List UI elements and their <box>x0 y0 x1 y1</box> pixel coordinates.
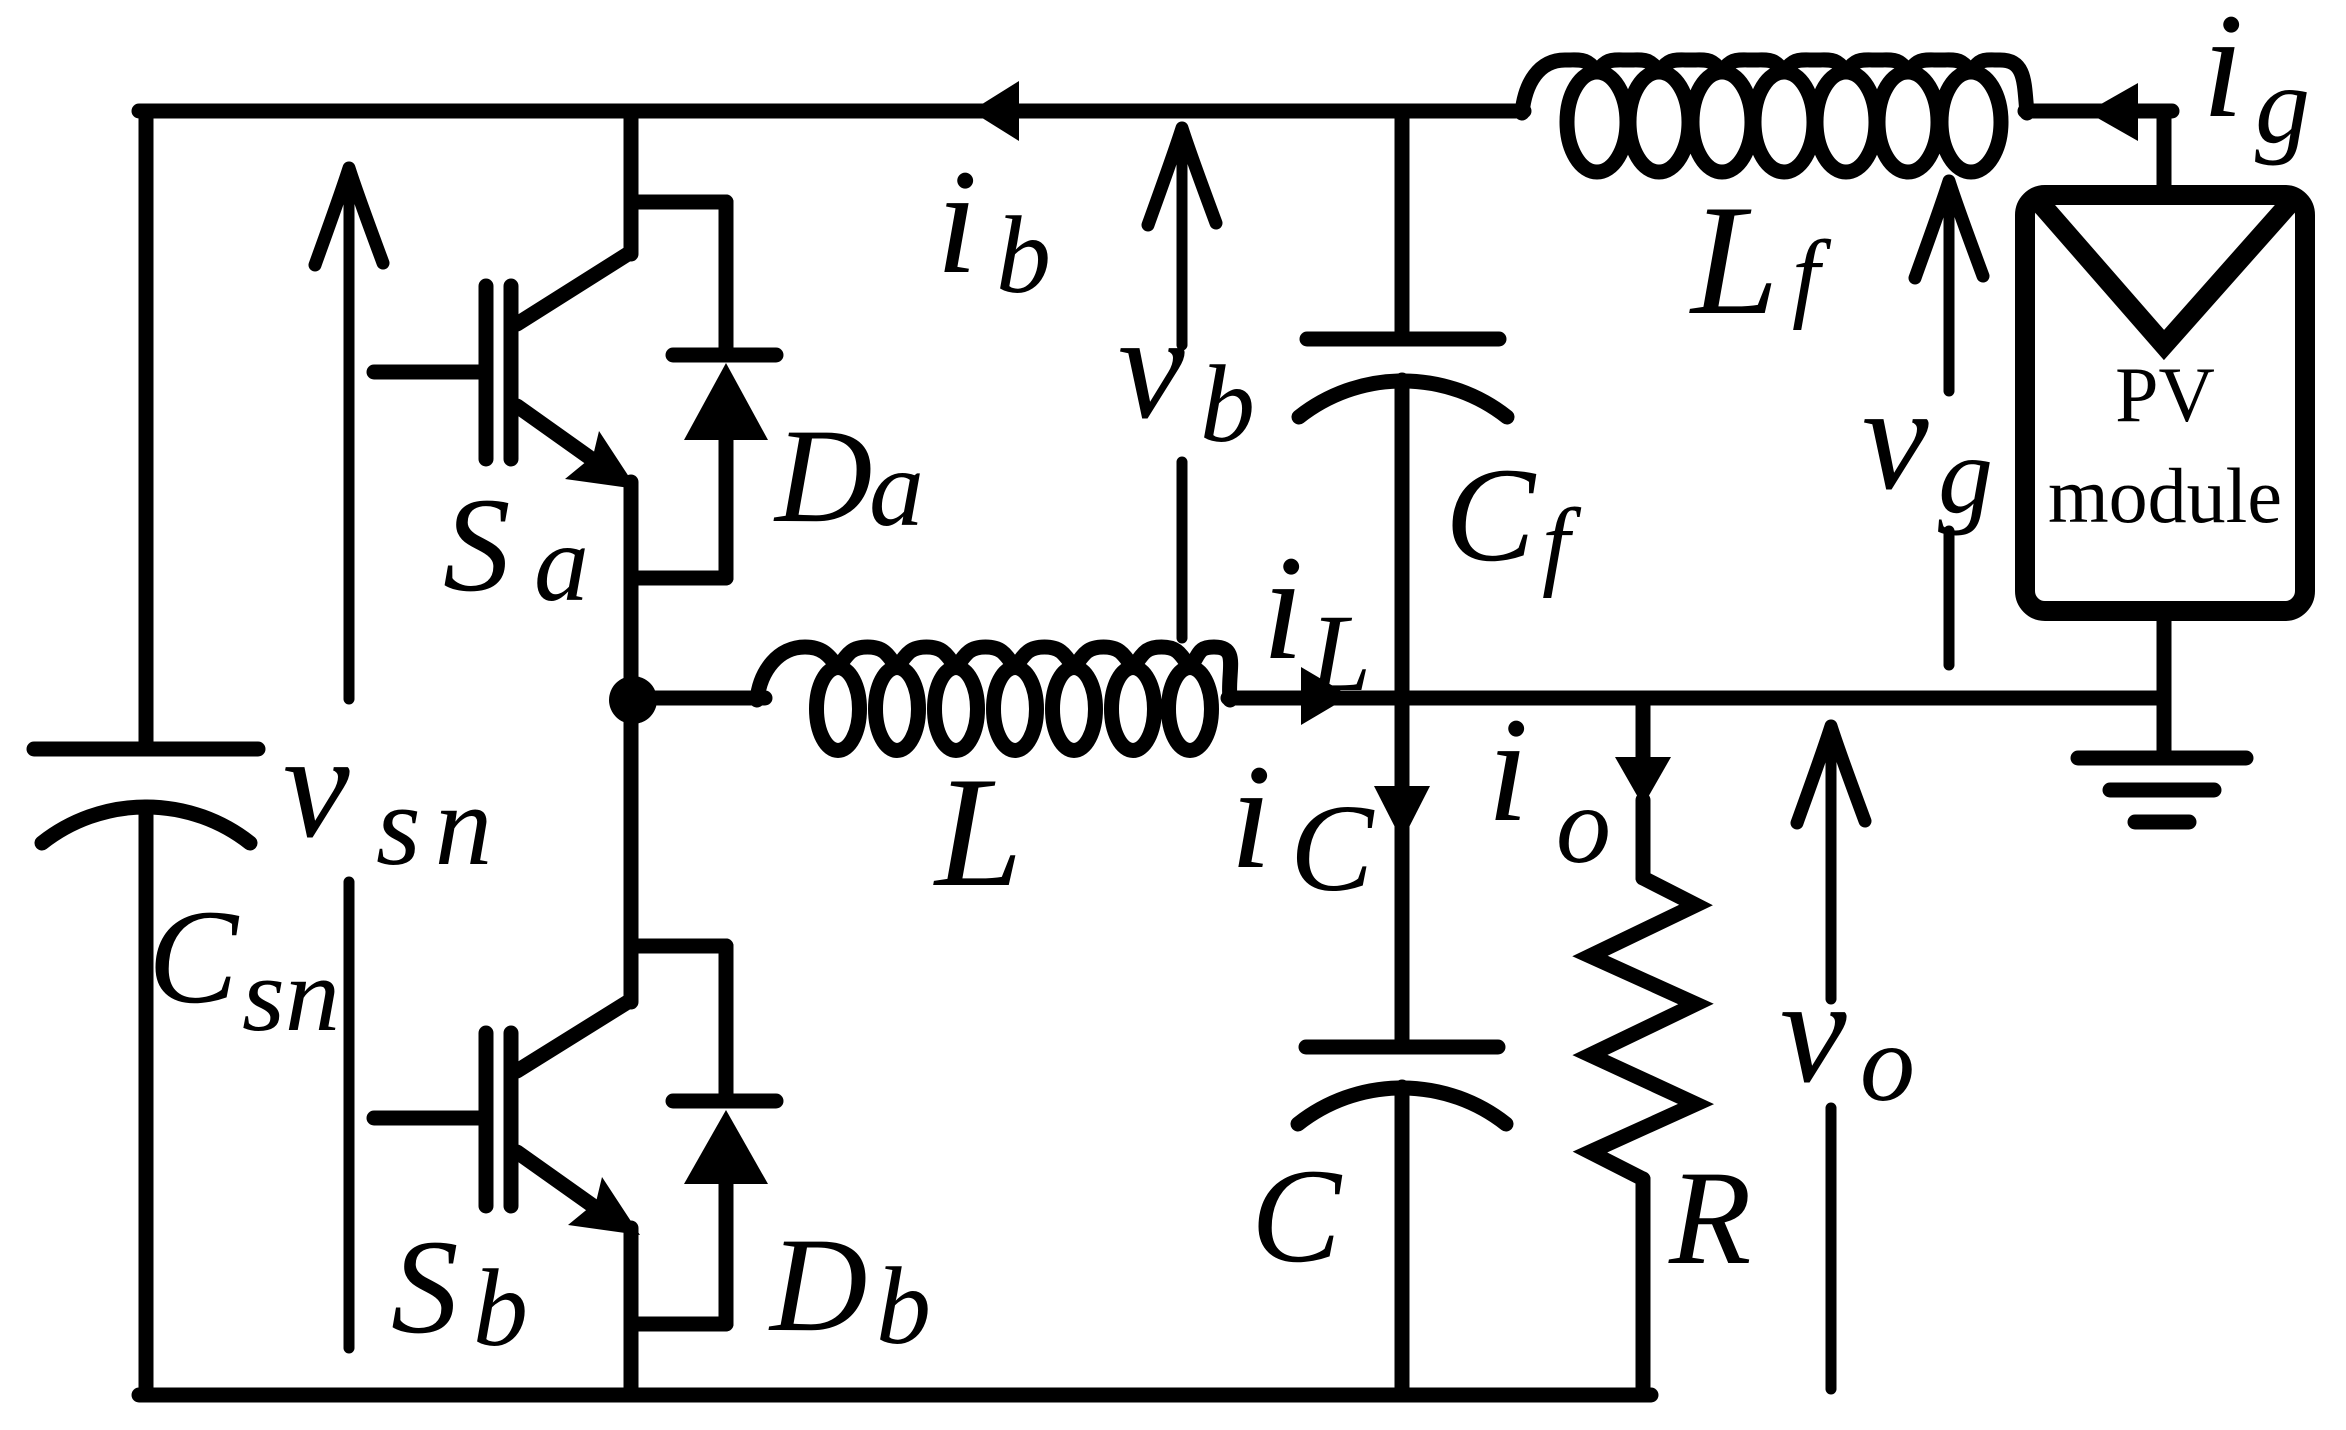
wire top rail (left of Lf) <box>139 104 1524 119</box>
capacitor Cf top plate <box>1307 332 1499 347</box>
capacitor C top plate <box>1306 1040 1498 1055</box>
wire left rail (below Csn) <box>139 807 154 1395</box>
svg-text:module: module <box>2048 452 2282 539</box>
transistor Sa emitter arrowhead <box>565 431 637 489</box>
transistor Sb collector lead <box>624 700 639 1002</box>
svg-text:S: S <box>391 1213 459 1362</box>
capacitor C curved plate <box>1298 1088 1506 1124</box>
capacitor Cf bottom lead <box>1395 380 1410 698</box>
voltage arrow vg shaft (upper) <box>1944 181 1955 391</box>
voltage arrow vb shaft (lower) <box>1177 462 1188 638</box>
svg-text:L: L <box>933 745 1023 920</box>
diode Da cathode bar <box>673 348 776 363</box>
capacitor Cf curved plate <box>1299 381 1507 417</box>
svg-text:sn: sn <box>376 762 506 889</box>
voltage arrow vg shaft (lower) <box>1944 531 1955 665</box>
capacitor C top lead <box>1395 698 1410 1040</box>
svg-text:v: v <box>1862 355 1929 521</box>
svg-text:sn: sn <box>242 936 340 1053</box>
wire top-right corner down to PV module <box>2157 111 2172 196</box>
transistor Sb emitter lead <box>624 1228 639 1395</box>
svg-text:C: C <box>1251 1142 1343 1291</box>
transistor Sb gate bar <box>479 1033 494 1206</box>
diode Db cathode lead <box>719 946 734 1094</box>
svg-text:v: v <box>1780 948 1847 1114</box>
svg-text:C: C <box>1445 441 1537 590</box>
resistor R top lead <box>1636 698 1651 760</box>
svg-text:C: C <box>1290 780 1375 918</box>
transistor Sb gate lead <box>374 1111 479 1126</box>
svg-text:b: b <box>876 1245 931 1367</box>
voltage arrow vo shaft (lower) <box>1826 1108 1837 1389</box>
svg-text:R: R <box>1668 1144 1751 1293</box>
wire capacitor branch to PV ground net <box>1402 691 2164 706</box>
ground lead <box>2157 698 2172 752</box>
PV module chevron <box>2040 203 2290 345</box>
transistor Sb body bar <box>504 1033 519 1206</box>
transistor Sb emitter arrowhead <box>568 1177 640 1235</box>
capacitor Csn top plate <box>34 742 258 757</box>
svg-text:D: D <box>773 402 873 551</box>
svg-text:v: v <box>283 703 350 869</box>
voltage arrow vo head <box>1797 726 1865 823</box>
svg-text:PV: PV <box>2115 351 2215 438</box>
voltage arrow vsn shaft (lower) <box>344 882 355 1348</box>
voltage arrow vg head <box>1915 181 1983 278</box>
node midpoint junction dot <box>609 676 657 724</box>
voltage arrow vsn head <box>315 168 383 265</box>
svg-text:a: a <box>869 427 924 549</box>
current arrow iC <box>1374 786 1430 841</box>
svg-text:b: b <box>473 1247 528 1369</box>
transistor Sa body bar <box>504 286 519 459</box>
transistor Sa emitter angled line <box>517 406 600 465</box>
diode Da anode lead <box>719 440 734 578</box>
wire bottom rail <box>139 1388 1651 1403</box>
diode Da triangle <box>684 363 768 440</box>
transistor Sa gate lead <box>374 365 479 380</box>
transistor Sa emitter lead <box>624 482 639 700</box>
capacitor Csn curved plate <box>42 807 250 843</box>
svg-text:o: o <box>1860 1002 1915 1124</box>
transistor Sa gate bar <box>479 286 494 459</box>
svg-text:b: b <box>996 194 1051 316</box>
wire left rail (above Csn) <box>139 111 154 749</box>
resistor R bottom lead <box>1636 1179 1651 1395</box>
voltage arrow vb head <box>1148 128 1216 225</box>
svg-text:i: i <box>2202 0 2244 149</box>
current arrow iL on middle wire <box>1301 667 1350 725</box>
wire middle node to inductor L <box>633 691 765 706</box>
ground bar 3 <box>2135 815 2189 830</box>
PV module top lead <box>2157 111 2172 195</box>
PV module box <box>2025 195 2305 611</box>
svg-text:i: i <box>1230 734 1272 900</box>
diode Da top connection wire <box>631 195 726 210</box>
current arrow ig on top rail <box>2087 83 2138 141</box>
diode Db triangle <box>684 1110 768 1184</box>
diode Da cathode lead <box>719 202 734 348</box>
svg-text:g: g <box>1938 414 1993 536</box>
svg-text:i: i <box>1262 525 1304 691</box>
svg-text:D: D <box>768 1211 868 1360</box>
svg-text:v: v <box>1118 284 1185 450</box>
inductor Lf coil <box>1522 60 2027 113</box>
diode Db cathode bar <box>673 1094 776 1109</box>
svg-text:C: C <box>148 883 240 1032</box>
svg-text:g: g <box>2255 44 2310 166</box>
svg-text:L: L <box>1308 592 1371 714</box>
capacitor Cf top lead <box>1395 111 1410 331</box>
diode Da bottom connection wire <box>631 571 726 586</box>
svg-text:a: a <box>534 502 589 624</box>
svg-text:i: i <box>936 139 978 305</box>
inductor L coil <box>757 647 1231 700</box>
svg-text:S: S <box>443 471 511 620</box>
svg-text:o: o <box>1556 764 1611 886</box>
capacitor C bottom lead <box>1395 1087 1410 1395</box>
ground bar 2 <box>2110 783 2214 798</box>
voltage arrow vsn shaft (upper) <box>344 168 355 699</box>
svg-text:L: L <box>1689 173 1779 348</box>
transistor Sb emitter angled line <box>517 1152 603 1213</box>
wire top rail (right of Lf) <box>2025 104 2172 119</box>
diode Db anode lead <box>719 1184 734 1324</box>
ground bar 1 <box>2078 751 2246 766</box>
svg-text:i: i <box>1487 687 1529 853</box>
voltage arrow vo shaft (upper) <box>1826 726 1837 999</box>
current arrow io <box>1615 757 1671 806</box>
transistor Sa collector lead <box>624 111 639 254</box>
wire inductor L to capacitor branch <box>1228 691 1402 706</box>
transistor Sa collector angled line <box>517 252 631 324</box>
transistor Sb collector angled line <box>517 1000 631 1071</box>
resistor R zigzag <box>1590 878 1696 1179</box>
current arrow ib on top rail <box>971 81 1019 141</box>
diode Db top connection wire <box>631 939 726 954</box>
diode Db bottom connection wire <box>631 1317 726 1332</box>
resistor R lead to zigzag <box>1636 800 1651 878</box>
voltage arrow vb shaft (upper) <box>1177 128 1188 345</box>
svg-text:b: b <box>1200 343 1255 465</box>
PV module bottom lead <box>2157 611 2172 698</box>
